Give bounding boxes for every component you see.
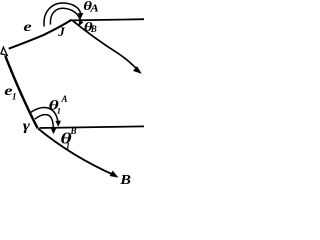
open triangle marker at top of e1 bbox=[1, 47, 7, 55]
arc theta_1^B (inner arc at gamma) bbox=[35, 115, 54, 129]
svg-text:1: 1 bbox=[57, 106, 61, 116]
arrow from gamma down-right to B bbox=[38, 129, 116, 176]
arc theta_B (inner arc over vertex J) bbox=[50, 8, 81, 24]
svg-text:γ: γ bbox=[23, 119, 31, 134]
wire e (line from left junction to vertex J) bbox=[9, 20, 72, 49]
svg-text:B: B bbox=[70, 126, 77, 136]
node J horizontal ray bbox=[72, 19, 145, 20]
svg-text:A: A bbox=[61, 94, 68, 104]
arc theta_1^A (outer arc at gamma) bbox=[31, 107, 58, 121]
gamma horizontal ray bbox=[40, 126, 145, 128]
arrow from J down-right bbox=[72, 20, 140, 72]
svg-text:J: J bbox=[57, 24, 65, 39]
svg-text:B: B bbox=[90, 24, 97, 34]
svg-text:1: 1 bbox=[66, 141, 70, 151]
svg-text:A: A bbox=[89, 4, 99, 15]
svg-text:e: e bbox=[23, 18, 31, 34]
svg-text:1: 1 bbox=[12, 92, 17, 102]
arc theta_A (outer arc over vertex J) bbox=[44, 3, 81, 27]
svg-text:B: B bbox=[119, 173, 131, 187]
wire e1 (curved line from triangle down to gamma vertex) bbox=[5, 56, 37, 128]
